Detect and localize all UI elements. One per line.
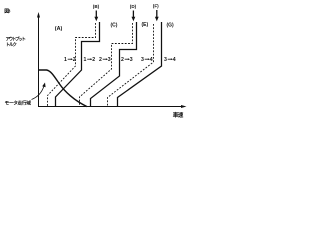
svg-text:3: 3: [130, 57, 133, 63]
svg-text:3: 3: [108, 57, 111, 63]
svg-text:車速: 車速: [173, 111, 184, 119]
arrow B: [94, 11, 98, 22]
dashed 3→4 downshift line: [108, 24, 154, 107]
svg-text:1: 1: [84, 57, 87, 63]
svg-text:2: 2: [99, 57, 102, 63]
solid 1→2 upshift line: [56, 22, 100, 107]
arrow D: [132, 11, 136, 22]
dashed 2→3 downshift line: [80, 23, 133, 107]
shift label 1→2 (dashed curve): [64, 57, 76, 63]
shift label 1→2 (solid curve): [84, 57, 96, 63]
svg-text:4: 4: [173, 57, 176, 63]
svg-text:図3: 図3: [4, 8, 11, 15]
svg-text:(F): (F): [153, 4, 159, 9]
svg-text:トルク: トルク: [6, 41, 18, 48]
svg-text:(A): (A): [55, 26, 63, 32]
svg-text:2: 2: [121, 57, 124, 63]
solid 3→4 upshift line: [118, 22, 162, 107]
svg-text:(B): (B): [93, 4, 100, 9]
svg-text:3: 3: [164, 57, 167, 63]
x-axis: [39, 105, 187, 108]
y-axis: [37, 12, 40, 107]
shift label 3→4 (dashed curve): [141, 57, 153, 63]
arrow F: [155, 10, 159, 21]
svg-text:モータ走行域: モータ走行域: [5, 100, 32, 107]
motor region leader arrow: [32, 83, 46, 100]
svg-text:2: 2: [92, 57, 95, 63]
dashed 1→2 downshift line: [48, 23, 96, 107]
shift label 2→3 (dashed curve): [99, 57, 111, 63]
motor region boundary curve: [39, 70, 87, 107]
svg-text:(E): (E): [142, 22, 149, 28]
svg-text:(G): (G): [167, 23, 175, 29]
svg-text:(D): (D): [130, 4, 137, 9]
shift label 2→3 (solid curve): [121, 57, 133, 63]
shift label 3→4 (solid curve): [164, 57, 176, 63]
svg-text:(C): (C): [111, 23, 118, 29]
svg-text:3: 3: [141, 57, 144, 63]
svg-text:1: 1: [64, 57, 67, 63]
solid 2→3 upshift line: [91, 22, 137, 107]
svg-text:4: 4: [150, 57, 153, 63]
